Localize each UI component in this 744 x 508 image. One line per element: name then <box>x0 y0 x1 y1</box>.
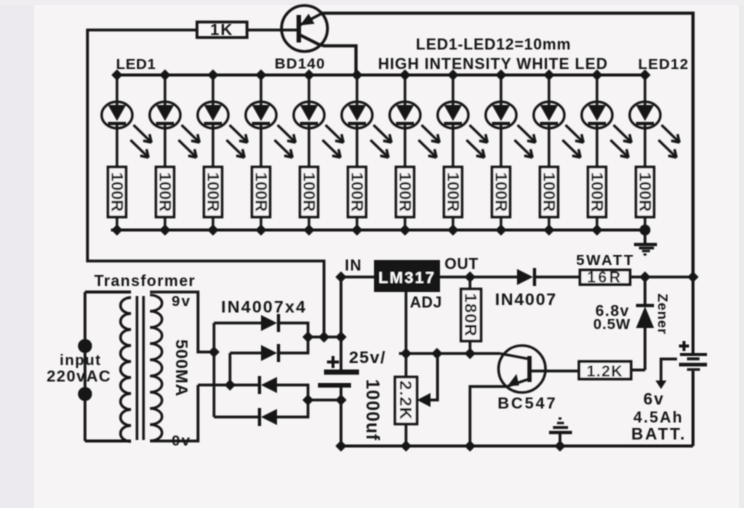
svg-text:HIGH INTENSITY WHITE LED: HIGH INTENSITY WHITE LED <box>378 56 608 73</box>
svg-text:IN4007x4: IN4007x4 <box>221 298 307 317</box>
svg-text:9v: 9v <box>172 293 192 310</box>
svg-text:100R: 100R <box>155 172 173 212</box>
svg-text:ADJ: ADJ <box>410 295 442 312</box>
svg-text:220vAC: 220vAC <box>47 369 112 386</box>
svg-text:100R: 100R <box>443 172 461 212</box>
svg-text:25v/: 25v/ <box>349 348 386 367</box>
svg-text:2.2K: 2.2K <box>396 381 415 421</box>
svg-text:100R: 100R <box>635 172 653 212</box>
svg-text:100R: 100R <box>299 172 317 212</box>
svg-text:Transformer: Transformer <box>94 273 195 290</box>
svg-text:LM317: LM317 <box>378 270 435 287</box>
svg-text:6v: 6v <box>643 391 664 409</box>
svg-text:input: input <box>60 352 102 369</box>
svg-text:Zener: Zener <box>655 293 671 334</box>
svg-text:0v: 0v <box>172 433 192 450</box>
svg-text:1.2K: 1.2K <box>587 364 624 381</box>
svg-text:100R: 100R <box>347 172 365 212</box>
svg-text:IN: IN <box>345 258 363 275</box>
svg-text:LED12: LED12 <box>638 56 689 73</box>
svg-text:100R: 100R <box>491 172 509 212</box>
svg-text:0.5W: 0.5W <box>593 316 631 333</box>
svg-text:100R: 100R <box>539 172 557 212</box>
svg-text:100R: 100R <box>251 172 269 212</box>
svg-text:100R: 100R <box>395 172 413 212</box>
svg-text:5WATT: 5WATT <box>576 252 635 269</box>
svg-text:LED1: LED1 <box>116 56 156 73</box>
svg-text:OUT: OUT <box>445 256 479 273</box>
svg-text:4.5Ah: 4.5Ah <box>633 410 683 427</box>
svg-text:IN4007: IN4007 <box>495 290 557 309</box>
svg-text:1000uf: 1000uf <box>363 379 383 441</box>
svg-text:BD140: BD140 <box>275 56 326 73</box>
svg-text:16R: 16R <box>587 270 623 287</box>
svg-text:500MA: 500MA <box>172 339 191 396</box>
svg-text:100R: 100R <box>107 172 125 212</box>
svg-text:LED1-LED12=10mm: LED1-LED12=10mm <box>416 37 571 54</box>
svg-text:BATT.: BATT. <box>631 426 687 444</box>
svg-text:100R: 100R <box>203 172 221 212</box>
svg-text:BC547: BC547 <box>498 396 558 413</box>
svg-text:100R: 100R <box>587 172 605 212</box>
svg-text:180R: 180R <box>461 293 480 337</box>
svg-text:1K: 1K <box>210 22 233 39</box>
